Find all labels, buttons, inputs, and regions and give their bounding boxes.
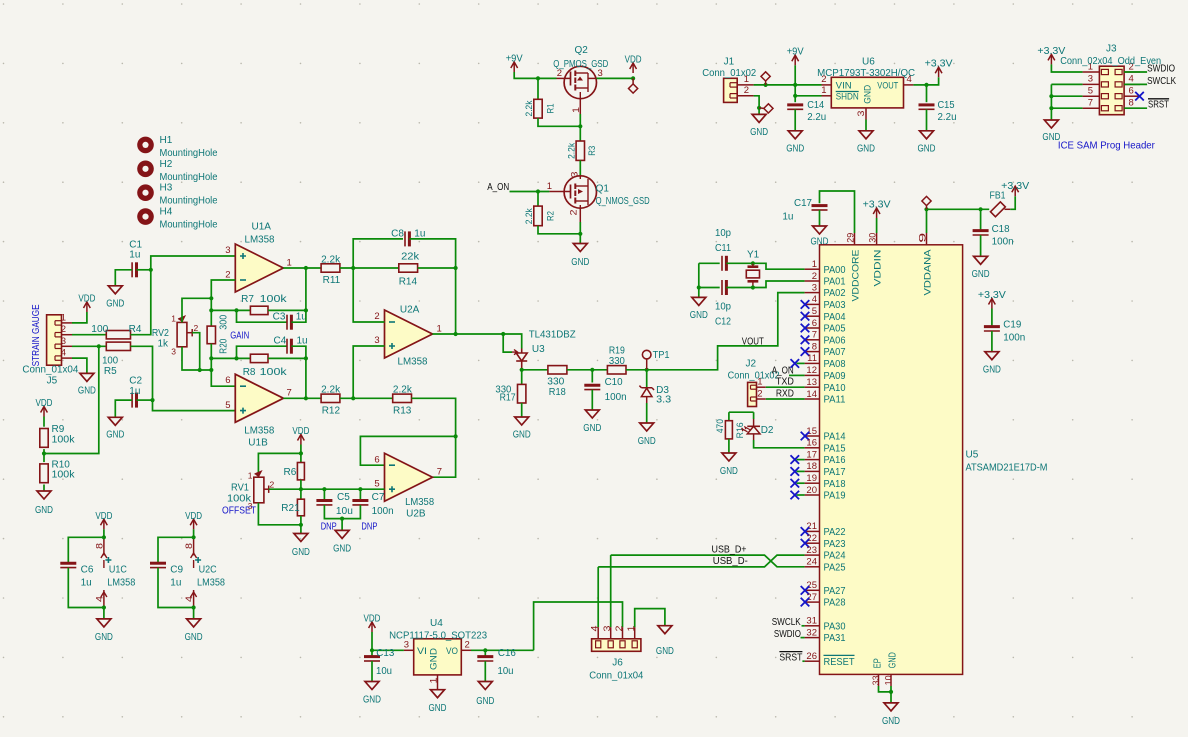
svg-text:25: 25 [806, 580, 817, 591]
wire [754, 440, 805, 448]
ground [515, 417, 529, 425]
transistor Q2 [564, 66, 596, 98]
ground [573, 244, 587, 252]
svg-text:1: 1 [248, 471, 253, 481]
junction [1049, 94, 1053, 98]
wire [193, 529, 195, 537]
svg-text:GND: GND [185, 632, 203, 643]
svg-text:4: 4 [1129, 74, 1134, 85]
svg-text:MCP1793T-3302H/QC: MCP1793T-3302H/QC [817, 68, 915, 79]
transistor Q1 [564, 176, 596, 208]
power VDD [371, 622, 373, 632]
svg-text:2: 2 [614, 626, 624, 632]
svg-text:5: 5 [225, 400, 230, 411]
svg-text:PA02: PA02 [824, 288, 846, 299]
svg-text:SWDIO: SWDIO [774, 628, 801, 640]
svg-text:GND: GND [428, 648, 439, 670]
svg-text:100n: 100n [605, 392, 627, 403]
junction [209, 296, 213, 300]
resistor R8 [250, 354, 268, 362]
wire [1124, 71, 1147, 73]
pin 32 PA31 [805, 637, 820, 639]
pin 6 PA05 [805, 327, 820, 329]
ground [341, 519, 343, 531]
svg-text:U4: U4 [430, 618, 443, 629]
power +3.3V [876, 218, 878, 233]
wire [534, 602, 623, 650]
wire [131, 256, 236, 335]
svg-text:4: 4 [590, 626, 600, 632]
svg-text:H4: H4 [160, 207, 173, 218]
wire [1051, 95, 1082, 97]
wire [182, 298, 211, 322]
junction [697, 285, 701, 289]
ground [813, 226, 827, 234]
mounting hole H3 [137, 184, 154, 201]
svg-text:GND: GND [476, 696, 494, 707]
junction [102, 535, 106, 539]
svg-text:GND: GND [429, 703, 447, 714]
svg-text:PA27: PA27 [824, 586, 846, 597]
svg-text:DNP: DNP [361, 520, 377, 532]
wire [237, 310, 288, 322]
svg-text:SRST: SRST [1148, 99, 1169, 111]
svg-text:PA19: PA19 [824, 491, 846, 502]
wire [802, 625, 805, 627]
svg-text:6: 6 [1129, 86, 1134, 97]
wire [728, 439, 730, 453]
svg-text:GND: GND [583, 423, 601, 434]
wire [455, 268, 457, 334]
svg-text:ICE SAM Prog Header: ICE SAM Prog Header [1058, 140, 1155, 152]
svg-text:U6: U6 [862, 56, 875, 67]
svg-text:100n: 100n [992, 236, 1014, 247]
svg-text:7: 7 [1088, 98, 1093, 109]
wire [538, 118, 580, 126]
wire [913, 84, 926, 86]
wire [579, 160, 581, 176]
svg-text:30: 30 [868, 233, 879, 243]
svg-text:VI: VI [417, 646, 427, 657]
svg-text:29: 29 [846, 233, 857, 243]
svg-text:GND: GND [887, 652, 898, 668]
capacitor C17 [812, 204, 828, 207]
svg-text:17: 17 [806, 449, 817, 460]
svg-text:3: 3 [61, 336, 66, 347]
regulator U6 MCP1793T [831, 77, 903, 108]
svg-text:GND: GND [690, 310, 708, 321]
wire [103, 529, 105, 537]
ground [478, 682, 492, 690]
svg-text:10p: 10p [715, 301, 731, 312]
svg-text:PA24: PA24 [824, 551, 846, 562]
crystal Y1 [748, 265, 759, 268]
wire [726, 287, 753, 289]
svg-text:3: 3 [598, 68, 603, 79]
svg-text:+9V: +9V [787, 47, 804, 58]
svg-text:100k: 100k [260, 294, 288, 305]
wire [340, 397, 393, 399]
wire [353, 239, 403, 268]
svg-text:2: 2 [225, 270, 230, 281]
svg-text:J3: J3 [1106, 44, 1117, 55]
svg-text:C11: C11 [715, 243, 731, 254]
svg-text:1u: 1u [81, 578, 92, 589]
svg-text:GND: GND [95, 632, 113, 643]
svg-text:C18: C18 [992, 224, 1010, 235]
svg-text:VDDIN: VDDIN [872, 249, 883, 286]
shunt reference U3 TL431DBZ [521, 349, 523, 354]
wire [579, 222, 581, 244]
wire [698, 263, 700, 287]
svg-text:C5: C5 [337, 492, 350, 503]
capacitor C10 [591, 370, 593, 383]
svg-text:+3.3V: +3.3V [978, 290, 1006, 301]
junction [149, 268, 153, 272]
power +3.3V [1010, 196, 1015, 209]
svg-text:SWDIO: SWDIO [1147, 63, 1175, 75]
svg-text:GND: GND [363, 695, 381, 706]
ground [920, 131, 934, 139]
resistor R14 [399, 264, 418, 272]
svg-text:LM358: LM358 [245, 235, 275, 246]
svg-text:4: 4 [184, 596, 194, 602]
svg-text:USB_D-: USB_D- [713, 555, 748, 567]
wire USB_D+ [611, 555, 805, 567]
svg-text:VDD: VDD [36, 398, 53, 409]
svg-text:PA18: PA18 [824, 479, 846, 490]
junction [751, 261, 755, 265]
svg-text:ATSAMD21E17D-M: ATSAMD21E17D-M [966, 462, 1048, 473]
svg-text:GND: GND [106, 299, 124, 310]
svg-text:VOUT: VOUT [877, 80, 898, 91]
svg-text:6: 6 [225, 375, 230, 386]
junction [645, 368, 649, 372]
resistor R9 [40, 429, 48, 448]
wire USB_D- [598, 555, 804, 567]
wire [72, 345, 106, 347]
svg-text:10u: 10u [376, 666, 392, 677]
svg-text:GND: GND [571, 257, 589, 268]
svg-text:PA03: PA03 [824, 300, 846, 311]
svg-text:+9V: +9V [506, 54, 523, 65]
ground [108, 286, 122, 294]
svg-text:8: 8 [94, 543, 104, 549]
resistor R12 [321, 394, 340, 402]
capacitor C13 [371, 650, 373, 656]
svg-text:1: 1 [812, 259, 817, 270]
svg-text:Y1: Y1 [747, 250, 760, 261]
pin 16 PA15 [805, 447, 820, 449]
ground [585, 410, 599, 418]
svg-text:GND: GND [972, 269, 990, 280]
svg-text:GAIN: GAIN [230, 330, 249, 342]
svg-text:1: 1 [547, 181, 552, 192]
svg-text:PA01: PA01 [824, 277, 846, 288]
op-amp power pins U1C [103, 537, 105, 555]
connector J5 [47, 315, 62, 365]
ground [1044, 120, 1058, 128]
wire [591, 390, 593, 410]
svg-text:4: 4 [61, 348, 66, 359]
wire [699, 262, 720, 264]
svg-text:470: 470 [715, 419, 726, 433]
capacitor C19 [991, 309, 993, 327]
wire [258, 453, 301, 477]
resistor R10 [40, 464, 48, 483]
junction [536, 76, 540, 80]
wire [1124, 107, 1147, 109]
pin 19 PA18 [805, 482, 820, 484]
resistor R3 [579, 126, 581, 141]
svg-text:GND: GND [656, 646, 674, 657]
junction [889, 690, 893, 694]
capacitor C9 [158, 537, 194, 563]
svg-text:R8: R8 [243, 367, 256, 378]
pin 4 PA03 [805, 303, 820, 305]
junction [757, 106, 761, 110]
svg-text:1: 1 [171, 314, 176, 324]
svg-text:GND: GND [106, 430, 124, 441]
ground [103, 608, 105, 619]
junction [764, 83, 768, 87]
svg-text:PA07: PA07 [824, 347, 846, 358]
svg-text:C12: C12 [715, 316, 731, 327]
power VDD [300, 435, 302, 445]
ground [698, 288, 700, 298]
svg-text:PA16: PA16 [824, 455, 846, 466]
svg-text:PA25: PA25 [824, 562, 846, 573]
svg-text:RESET: RESET [824, 657, 855, 668]
svg-text:2: 2 [569, 210, 579, 216]
svg-text:FB1: FB1 [990, 190, 1006, 201]
svg-text:GND: GND [35, 505, 53, 516]
svg-text:Q2: Q2 [575, 45, 589, 56]
svg-text:R14: R14 [399, 276, 418, 287]
wire [409, 239, 455, 268]
svg-text:2: 2 [757, 388, 762, 399]
svg-text:RV2: RV2 [152, 328, 169, 339]
svg-text:PA23: PA23 [824, 539, 846, 550]
svg-text:+3.3V: +3.3V [1001, 181, 1029, 192]
wire [418, 267, 456, 269]
wire [1051, 83, 1082, 85]
svg-text:R12: R12 [322, 406, 341, 417]
svg-text:3: 3 [225, 245, 230, 256]
svg-text:4: 4 [94, 596, 104, 602]
svg-text:27: 27 [806, 592, 817, 603]
wire [879, 686, 892, 692]
svg-text:R1: R1 [545, 104, 556, 114]
svg-text:USB_D+: USB_D+ [712, 544, 747, 556]
ground [974, 256, 988, 264]
wire [115, 400, 132, 417]
svg-text:C8: C8 [391, 228, 404, 239]
junction [304, 266, 308, 270]
svg-text:MountingHole: MountingHole [160, 148, 218, 159]
ferrite bead FB1 [990, 202, 1005, 217]
svg-text:J2: J2 [746, 358, 757, 369]
pin 7 PA06 [805, 339, 820, 341]
svg-text:4: 4 [907, 74, 912, 85]
wire [210, 344, 212, 370]
wire [819, 210, 821, 226]
wire [187, 332, 192, 334]
svg-text:Q1: Q1 [596, 184, 610, 195]
junction [304, 356, 308, 360]
wire [153, 400, 236, 411]
svg-text:19: 19 [806, 473, 817, 484]
svg-text:GND: GND [333, 544, 351, 555]
svg-text:D2: D2 [761, 425, 774, 436]
svg-text:Conn_01x04: Conn_01x04 [589, 670, 643, 681]
svg-text:100k: 100k [52, 470, 76, 481]
svg-text:1u: 1u [782, 212, 793, 223]
resistor R21 [297, 499, 304, 516]
junction [578, 124, 582, 128]
svg-text:C9: C9 [170, 565, 183, 576]
svg-text:2.2u: 2.2u [807, 112, 826, 123]
svg-text:R18: R18 [549, 387, 566, 398]
wire [1051, 107, 1082, 109]
wire [820, 191, 855, 233]
svg-text:R20: R20 [218, 338, 229, 353]
svg-text:J6: J6 [612, 657, 623, 668]
junction [234, 356, 238, 360]
pin 12 PA09 [805, 374, 820, 376]
svg-text:Conn_01x02: Conn_01x02 [702, 68, 756, 79]
svg-text:J1: J1 [724, 56, 735, 67]
svg-text:8: 8 [184, 543, 194, 549]
svg-text:A_ON: A_ON [487, 181, 509, 193]
power flag [765, 81, 767, 85]
junction [924, 207, 928, 211]
svg-text:C14: C14 [807, 100, 824, 111]
capacitor C8 [404, 231, 406, 246]
svg-text:2.2k: 2.2k [524, 100, 535, 116]
power VDD [86, 302, 88, 312]
wire [268, 357, 306, 359]
svg-text:7: 7 [812, 330, 817, 341]
svg-text:100k: 100k [52, 434, 76, 445]
ground [890, 692, 892, 703]
op-amp U2B [385, 453, 433, 501]
resistor R20 [207, 326, 215, 344]
wire [865, 120, 867, 131]
svg-text:2.2k: 2.2k [321, 385, 341, 396]
resistor R5 [106, 342, 130, 350]
junction [192, 535, 196, 539]
wire [72, 312, 87, 323]
junction [209, 356, 213, 360]
wire [300, 445, 302, 463]
pin 3 PA02 [805, 292, 820, 294]
wire [211, 357, 250, 359]
svg-text:C4: C4 [274, 336, 287, 347]
wire [300, 516, 302, 534]
svg-text:10p: 10p [715, 228, 731, 239]
svg-text:20: 20 [806, 485, 817, 496]
wire [927, 209, 990, 233]
svg-text:R21: R21 [281, 503, 300, 514]
svg-text:12: 12 [806, 365, 817, 376]
pin 29 VDDCORE [854, 233, 856, 245]
svg-text:U1B: U1B [248, 438, 268, 449]
junction [590, 368, 594, 372]
svg-text:4: 4 [812, 294, 817, 305]
junction [299, 451, 303, 455]
wire [926, 109, 928, 130]
svg-text:C15: C15 [938, 100, 955, 111]
junction [454, 266, 458, 270]
svg-text:2: 2 [557, 68, 562, 79]
wire [353, 346, 384, 398]
wire [211, 309, 250, 311]
svg-text:LM358: LM358 [197, 578, 225, 589]
capacitor C3 [286, 315, 288, 330]
junction [299, 523, 303, 527]
pin 15 PA14 [805, 435, 820, 437]
pin 30 VDDIN [876, 233, 878, 245]
wire [626, 369, 647, 371]
svg-text:GND: GND [720, 466, 738, 477]
svg-text:GND: GND [513, 430, 531, 441]
wire [300, 480, 302, 499]
capacitor C5 [323, 489, 325, 500]
svg-text:3: 3 [1088, 74, 1093, 85]
svg-text:1: 1 [61, 312, 66, 323]
svg-text:100: 100 [91, 324, 108, 335]
wire [340, 267, 399, 269]
wire [646, 403, 648, 423]
wire [353, 268, 384, 322]
pin 8 PA07 [805, 351, 820, 353]
svg-text:3: 3 [602, 626, 612, 632]
svg-text:10u: 10u [498, 666, 514, 677]
svg-text:GND: GND [292, 547, 310, 558]
junction [150, 398, 154, 402]
power VDD [103, 519, 105, 529]
svg-text:U2A: U2A [400, 305, 420, 316]
svg-text:U3: U3 [532, 344, 545, 355]
wire [283, 267, 321, 269]
capacitor C1 [131, 262, 133, 277]
svg-text:EP: EP [872, 658, 883, 668]
svg-text:GND: GND [750, 127, 768, 138]
wire [1051, 64, 1082, 72]
svg-text:R2: R2 [545, 211, 556, 221]
wire [991, 331, 993, 352]
svg-text:23: 23 [806, 545, 817, 556]
resistor R18 [548, 366, 567, 374]
svg-text:6: 6 [374, 454, 379, 465]
zener diode D3 [646, 370, 648, 388]
wire [137, 399, 153, 401]
svg-text:2: 2 [270, 480, 275, 490]
power +9V [513, 62, 515, 72]
pin 24 PA25 [805, 566, 820, 568]
svg-text:PA08: PA08 [824, 359, 846, 370]
svg-text:13: 13 [806, 377, 817, 388]
pin 18 PA17 [805, 470, 820, 472]
capacitor C11 [721, 256, 723, 271]
pin 33 EP [878, 674, 880, 686]
wire [597, 77, 634, 79]
connector J6 [592, 639, 641, 652]
resistor R7 [250, 306, 268, 314]
svg-text:8: 8 [1129, 98, 1134, 109]
wire [754, 96, 760, 115]
